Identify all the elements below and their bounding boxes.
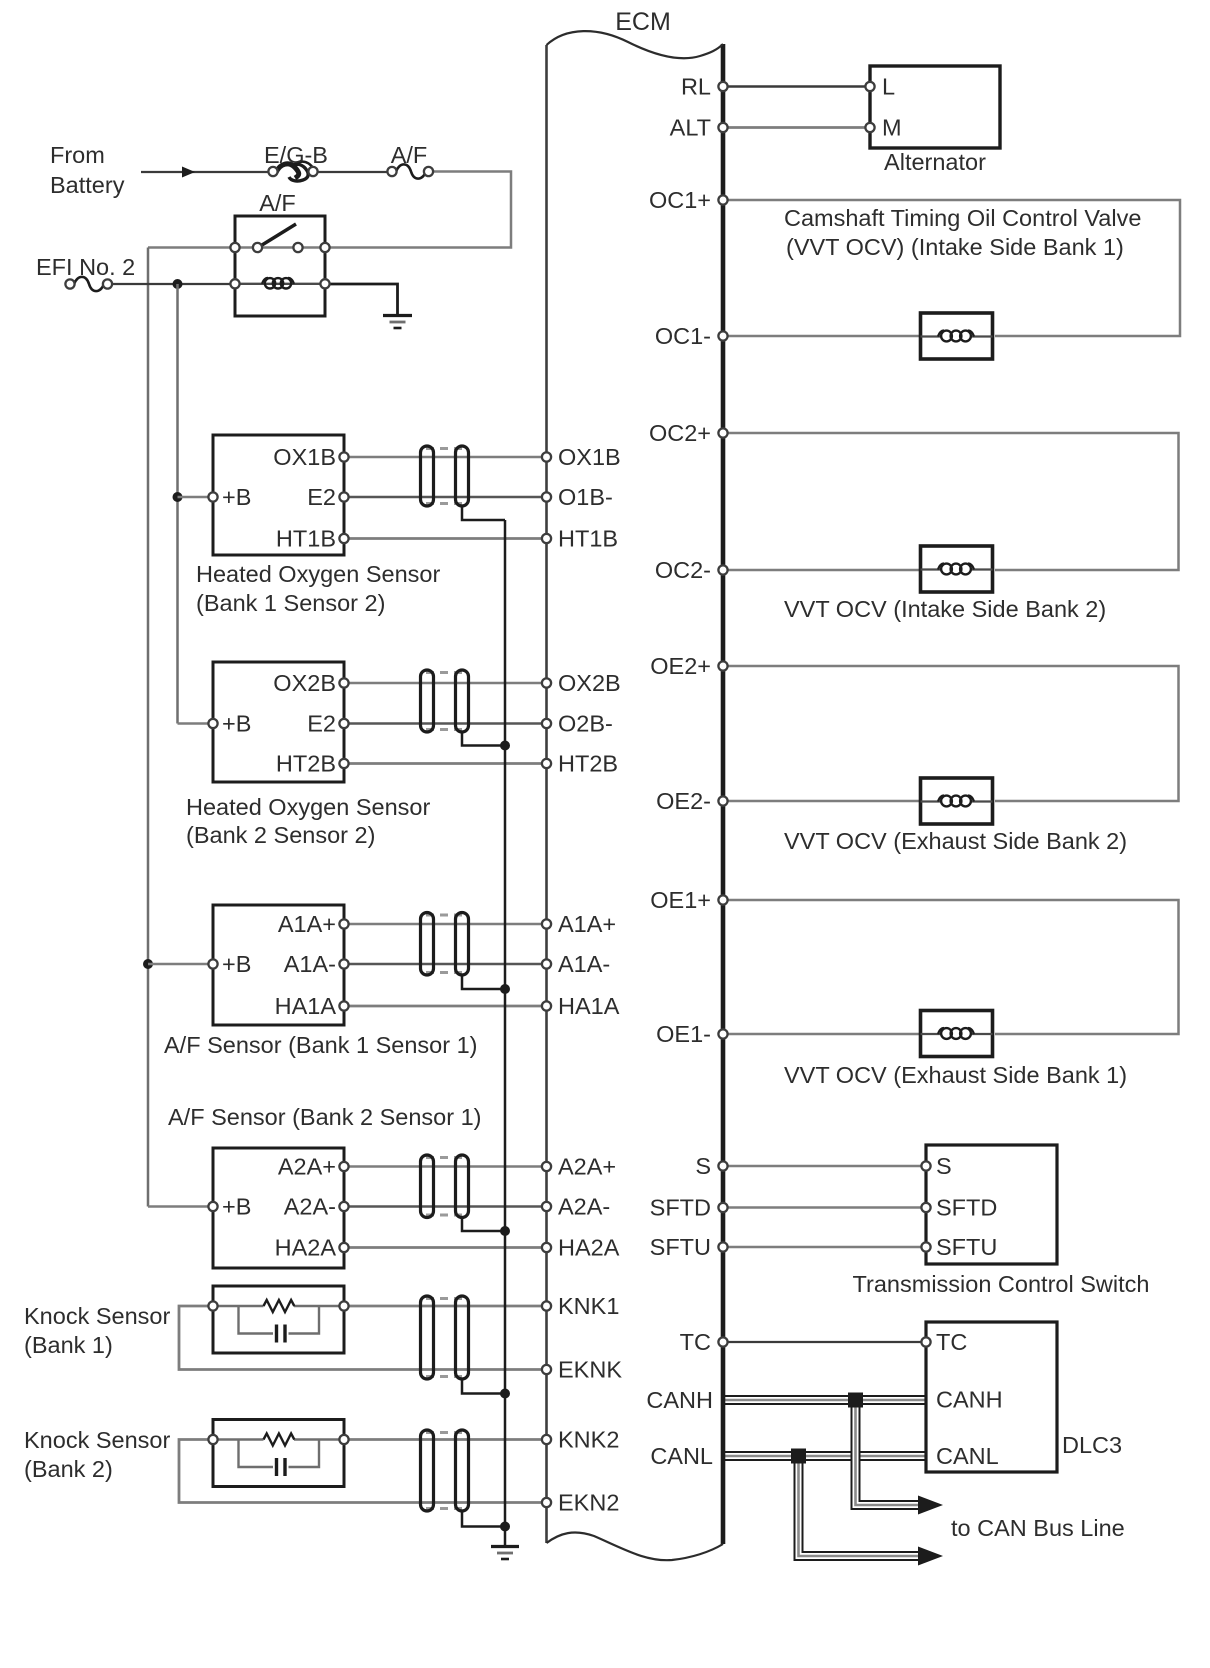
svg-text:ECM: ECM [615, 8, 671, 36]
svg-text:HT1B: HT1B [558, 526, 618, 552]
svg-text:From: From [50, 142, 105, 168]
svg-text:OX2B: OX2B [558, 670, 621, 696]
svg-text:+B: +B [222, 711, 251, 737]
sensor box HO2S bank1 sensor2 [208, 435, 348, 555]
svg-text:VVT OCV (Exhaust Side Bank 1): VVT OCV (Exhaust Side Bank 1) [784, 1062, 1127, 1088]
fuse A/F [396, 164, 426, 178]
svg-text:EKNK: EKNK [558, 1357, 622, 1383]
ECM terminal RL [718, 82, 727, 91]
shield right conductor AFS B2S1 [456, 1155, 469, 1218]
coil box VVT OCV exhaust bank1 [921, 1011, 993, 1057]
ECM terminal OE2- [718, 796, 727, 805]
ground symbol under relay [383, 314, 412, 317]
svg-text:A2A+: A2A+ [278, 1154, 336, 1180]
svg-text:(VVT OCV) (Intake Side Bank 1): (VVT OCV) (Intake Side Bank 1) [786, 234, 1124, 260]
shield drain bus vertical [504, 520, 507, 1546]
svg-text:SFTU: SFTU [650, 1234, 711, 1260]
wire AFS B1S1 signal top [344, 923, 547, 926]
svg-text:TC: TC [936, 1329, 967, 1355]
ECM bottom wave [547, 1532, 724, 1560]
ECM terminal HA1A [542, 1001, 551, 1010]
svg-text:CANL: CANL [650, 1443, 713, 1469]
shield dashes AFS B1S1 [426, 914, 463, 917]
bus A vertical (relay output) [147, 248, 150, 1207]
svg-text:CANL: CANL [936, 1443, 999, 1469]
ground symbol shield bus [491, 1545, 519, 1548]
svg-text:HT1B: HT1B [276, 526, 336, 552]
svg-text:E2: E2 [307, 484, 336, 510]
svg-text:A1A-: A1A- [558, 951, 610, 977]
wire E/G-B fuse to A/F fuse [317, 171, 388, 173]
fusible link E/G-B [276, 164, 299, 178]
junction bus B to HO2S B1S2 +B [173, 492, 183, 502]
svg-text:S: S [936, 1153, 952, 1179]
wire bus B to +B HO2S bank1 [178, 496, 214, 499]
wire loop OC1+ top and right side [728, 200, 1180, 336]
svg-text:E2: E2 [307, 711, 336, 737]
svg-text:A/F Sensor (Bank 1 Sensor 1): A/F Sensor (Bank 1 Sensor 1) [164, 1032, 477, 1058]
ECM left edge [545, 45, 548, 1543]
shield dashes AFS B2S1 [426, 1156, 463, 1159]
wire HO2S B2S2 signal top [344, 682, 547, 685]
svg-text:L: L [882, 74, 895, 100]
svg-text:OC1+: OC1+ [649, 187, 711, 213]
coil box VVT OCV intake bank1 [921, 313, 993, 359]
shield dashes HO2S B1S2 [426, 447, 463, 450]
svg-text:Knock Sensor: Knock Sensor [24, 1427, 170, 1453]
junction shield drain 4 [500, 1226, 510, 1236]
svg-text:Knock Sensor: Knock Sensor [24, 1303, 170, 1329]
shield right conductor knock1 [456, 1296, 469, 1379]
arrow CAN L branch [918, 1547, 943, 1566]
svg-text:O1B-: O1B- [558, 484, 613, 510]
svg-text:SFTU: SFTU [936, 1234, 997, 1260]
sensor box A/F sensor bank2 [208, 1148, 348, 1268]
transmission control switch box [921, 1145, 1057, 1264]
junction shield drain 2 [500, 741, 510, 751]
svg-text:Alternator: Alternator [884, 149, 986, 175]
CAN H twisted line [723, 1395, 926, 1405]
CAN L twisted line [723, 1451, 926, 1461]
wire TC to DLC3 [728, 1341, 922, 1343]
wire HO2S B1S2 heater [344, 537, 547, 540]
ECM terminal ALT [718, 123, 727, 132]
sensor box A/F sensor bank1 [208, 905, 348, 1025]
wire AFS B2S1 E2/minus [344, 1205, 547, 1207]
shield dashes knock2 [426, 1431, 463, 1434]
svg-text:OE2+: OE2+ [650, 653, 711, 679]
svg-text:HA1A: HA1A [558, 993, 620, 1019]
svg-text:CANH: CANH [936, 1387, 1003, 1413]
ECM terminal KNK2 [542, 1435, 551, 1444]
ECM terminal A2A- [542, 1202, 551, 1211]
svg-text:OE2-: OE2- [656, 788, 711, 814]
knock sensor bank2 [208, 1420, 348, 1487]
svg-text:DLC3: DLC3 [1062, 1432, 1122, 1458]
svg-text:ALT: ALT [670, 115, 711, 141]
svg-text:A/F: A/F [259, 190, 296, 216]
shield left conductor HO2S B1S2 [421, 446, 434, 506]
svg-text:(Bank 1): (Bank 1) [24, 1332, 113, 1358]
ECM terminal OE1- [718, 1029, 727, 1038]
junction shield drain knock1 [500, 1389, 510, 1399]
svg-text:O2B-: O2B- [558, 711, 613, 737]
svg-text:OC2+: OC2+ [649, 420, 711, 446]
ECM terminal OX1B [542, 452, 551, 461]
ECM terminal OC1- [718, 331, 727, 340]
svg-text:E/G-B: E/G-B [264, 142, 328, 168]
junction shield drain knock2 [500, 1522, 510, 1532]
svg-text:Camshaft Timing Oil Control Va: Camshaft Timing Oil Control Valve [784, 205, 1141, 231]
wire relay switch to bus A [148, 246, 231, 249]
wire SFTD [728, 1206, 922, 1209]
svg-text:A/F Sensor (Bank 2 Sensor 1): A/F Sensor (Bank 2 Sensor 1) [168, 1104, 481, 1130]
svg-text:HA1A: HA1A [275, 993, 337, 1019]
svg-text:A2A-: A2A- [558, 1194, 610, 1220]
wire HO2S B1S2 signal top [344, 456, 547, 459]
ECM terminal A1A- [542, 959, 551, 968]
junction EFI bus B [173, 279, 183, 289]
coil box VVT OCV intake bank2 [921, 546, 993, 592]
svg-text:M: M [882, 115, 902, 141]
wire A/F fuse to relay switch [329, 172, 511, 248]
wire bus A to +B A/F sensor bank2 [148, 1205, 213, 1208]
svg-text:(Bank 2): (Bank 2) [24, 1456, 113, 1482]
svg-text:KNK2: KNK2 [558, 1427, 619, 1453]
wire loop OE2+ top and right side [728, 666, 1179, 801]
CAN L branch to bus [799, 1461, 919, 1556]
svg-text:SFTD: SFTD [650, 1195, 711, 1221]
shield dashes knock1 [426, 1297, 463, 1300]
svg-text:OE1-: OE1- [656, 1021, 711, 1047]
ECM terminal A1A+ [542, 919, 551, 928]
ECM terminal OC2- [718, 565, 727, 574]
DLC3 box [921, 1322, 1057, 1472]
wire AFS B2S1 signal top [344, 1165, 547, 1168]
shield dashes HO2S B2S2 [426, 671, 463, 674]
svg-text:OX2B: OX2B [273, 670, 336, 696]
svg-text:EFI No. 2: EFI No. 2 [36, 254, 135, 280]
ECM terminal A2A+ [542, 1162, 551, 1171]
svg-text:CANH: CANH [646, 1387, 713, 1413]
wire loop OE1+ top and right side [728, 900, 1179, 1034]
coil box VVT OCV exhaust bank2 [921, 778, 993, 824]
wire loop OC2+ top and right side [728, 433, 1179, 570]
fuse EFI No. 2 [74, 277, 104, 291]
shield right conductor HO2S B2S2 [456, 670, 469, 732]
ECM terminal OC2+ [718, 428, 727, 437]
svg-text:(Bank 1 Sensor 2): (Bank 1 Sensor 2) [196, 590, 385, 616]
wire AFS B1S1 heater [344, 1005, 547, 1008]
svg-text:A/F: A/F [391, 142, 428, 168]
wire RL to alternator L [728, 85, 866, 87]
shield drain HO2S B2S2 [462, 732, 505, 746]
svg-text:OC1-: OC1- [655, 323, 711, 349]
svg-text:to CAN Bus Line: to CAN Bus Line [951, 1515, 1125, 1541]
ECM terminal OE2+ [718, 661, 727, 670]
svg-text:TC: TC [680, 1329, 711, 1355]
ECM terminal TC [718, 1337, 727, 1346]
svg-text:HT2B: HT2B [558, 751, 618, 777]
ECM terminal SFTD [718, 1203, 727, 1212]
ECM terminal O2B- [542, 719, 551, 728]
shield drain knock1 [462, 1379, 505, 1394]
wire knock1 to KNK1 [348, 1305, 547, 1308]
svg-text:HA2A: HA2A [275, 1235, 337, 1261]
bus B vertical (EFI No.2) [176, 284, 179, 724]
shield right conductor AFS B1S1 [456, 913, 469, 976]
ECM terminal EKN2 [542, 1498, 551, 1507]
shield left conductor HO2S B2S2 [421, 670, 434, 732]
shield right conductor knock2 [456, 1430, 469, 1511]
shield right conductor HO2S B1S2 [456, 446, 469, 506]
wire relay coil to ground [329, 284, 398, 315]
wire EFI No.2 fuse to relay coil [111, 283, 231, 285]
wire HO2S B2S2 heater [344, 762, 547, 765]
svg-text:KNK1: KNK1 [558, 1293, 619, 1319]
knock sensor bank1 [208, 1286, 348, 1353]
svg-text:HT2B: HT2B [276, 751, 336, 777]
svg-text:+B: +B [222, 484, 251, 510]
wire knock2 loop to EKN2 [179, 1440, 547, 1503]
shield drain knock2 [462, 1511, 505, 1527]
wire OE2- to VVT OCV coil [728, 800, 921, 803]
svg-text:A1A+: A1A+ [558, 911, 616, 937]
svg-text:A1A-: A1A- [284, 951, 336, 977]
ECM terminal SFTU [718, 1242, 727, 1251]
shield left conductor AFS B1S1 [421, 913, 434, 976]
svg-text:OX1B: OX1B [273, 444, 336, 470]
wire from battery [141, 171, 269, 173]
wire AFS B2S1 heater [344, 1246, 547, 1249]
wire bus A to +B A/F sensor bank1 [148, 963, 213, 966]
ECM right edge [721, 44, 726, 1544]
wire OC2- to VVT OCV coil [728, 569, 921, 572]
ECM terminal HT1B [542, 534, 551, 543]
svg-text:A2A-: A2A- [284, 1194, 336, 1220]
shield drain AFS B2S1 [462, 1218, 505, 1232]
shield drain AFS B1S1 [462, 975, 505, 989]
svg-text:+B: +B [222, 951, 251, 977]
junction CANL [791, 1449, 806, 1464]
ECM terminal O1B- [542, 492, 551, 501]
svg-text:Transmission Control Switch: Transmission Control Switch [853, 1271, 1150, 1297]
svg-text:OC2-: OC2- [655, 557, 711, 583]
ECM terminal HA2A [542, 1243, 551, 1252]
CAN H branch to bus [856, 1405, 919, 1505]
wire OC1- to VVT OCV coil [728, 335, 921, 338]
svg-text:VVT OCV (Intake Side Bank 2): VVT OCV (Intake Side Bank 2) [784, 596, 1106, 622]
svg-text:HA2A: HA2A [558, 1235, 620, 1261]
ECM terminal HT2B [542, 759, 551, 768]
arrow on battery wire [182, 167, 195, 178]
sensor box HO2S bank2 sensor2 [208, 662, 348, 782]
wire ALT to alternator M [728, 126, 866, 129]
wire AFS B1S1 E2/minus [344, 963, 547, 965]
shield left conductor AFS B2S1 [421, 1155, 434, 1218]
wire S to transmission control switch [728, 1165, 922, 1168]
shield left conductor knock1 [421, 1296, 434, 1379]
wire HO2S B1S2 E2/minus [344, 496, 547, 498]
svg-text:Heated Oxygen Sensor: Heated Oxygen Sensor [196, 561, 440, 587]
wire bus B to +B HO2S bank2 [178, 722, 214, 725]
svg-text:+B: +B [222, 1194, 251, 1220]
alternator box [865, 66, 1000, 148]
svg-text:VVT OCV (Exhaust Side Bank 2): VVT OCV (Exhaust Side Bank 2) [784, 828, 1127, 854]
ECM terminal S [718, 1161, 727, 1170]
svg-text:Battery: Battery [50, 172, 125, 198]
relay A/F [230, 216, 329, 316]
svg-text:Heated Oxygen Sensor: Heated Oxygen Sensor [186, 794, 430, 820]
ECM terminal EKNK [542, 1365, 551, 1374]
ECM terminal OE1+ [718, 895, 727, 904]
junction shield drain 3 [500, 984, 510, 994]
svg-text:A2A+: A2A+ [558, 1154, 616, 1180]
shield drain HO2S B1S2 [462, 506, 505, 520]
junction CANH [848, 1393, 863, 1408]
ECM terminal KNK1 [542, 1301, 551, 1310]
ECM terminal OX2B [542, 678, 551, 687]
ECM terminal OC1+ [718, 195, 727, 204]
junction bus A to A/F sensor B1S1 +B [143, 959, 153, 969]
ECM top wave [547, 31, 724, 58]
svg-text:(Bank 2 Sensor 2): (Bank 2 Sensor 2) [186, 822, 375, 848]
svg-text:OE1+: OE1+ [650, 887, 711, 913]
arrow CAN H branch [918, 1496, 943, 1515]
svg-text:OX1B: OX1B [558, 444, 621, 470]
svg-text:S: S [695, 1153, 711, 1179]
wire knock1 loop to EKNK [179, 1306, 547, 1370]
wire OE1- to VVT OCV coil [728, 1033, 921, 1036]
shield left conductor knock2 [421, 1430, 434, 1511]
wire HO2S B2S2 E2/minus [344, 722, 547, 724]
wire SFTU [728, 1246, 922, 1249]
svg-text:SFTD: SFTD [936, 1195, 997, 1221]
wire knock2 to KNK2 [348, 1438, 547, 1441]
svg-text:A1A+: A1A+ [278, 911, 336, 937]
svg-text:EKN2: EKN2 [558, 1490, 619, 1516]
svg-text:RL: RL [681, 74, 711, 100]
